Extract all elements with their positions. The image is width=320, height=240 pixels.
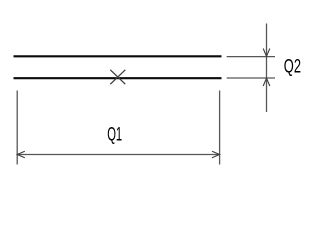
extension line bottom right (for Q1): [219, 91, 221, 165]
svg-text:Q2: Q2: [284, 56, 301, 77]
dimension line Q1 (horizontal): [17, 154, 219, 156]
center mark X on bottom line: [110, 70, 125, 84]
top plate line (thick): [14, 55, 222, 57]
arrowhead Q1 left (pointing left): [17, 151, 25, 158]
arrowhead Q2 top (pointing down): [263, 49, 270, 57]
bottom plate line (thick): [14, 77, 222, 79]
extension line bottom left (for Q1): [16, 91, 18, 165]
extension line right top (for Q2): [227, 56, 275, 58]
svg-text:Q1: Q1: [107, 125, 122, 146]
dimension line Q2 (vertical): [266, 24, 268, 113]
arrowhead Q1 right (pointing right): [212, 151, 220, 158]
extension line right bottom (for Q2): [227, 77, 275, 79]
arrowhead Q2 bottom (pointing up): [263, 78, 270, 86]
